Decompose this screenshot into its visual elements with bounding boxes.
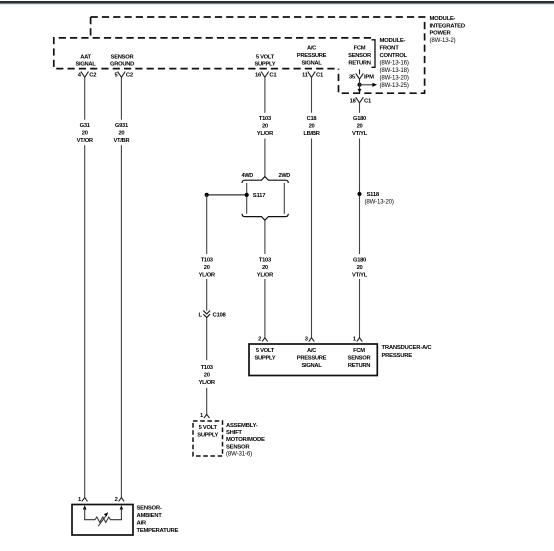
- option brace top 4WD/2WD: [242, 177, 288, 183]
- wire 4WD branch: [246, 183, 248, 214]
- node: FCM SENSOR RETURN header: [348, 45, 372, 66]
- svg-text:AAT: AAT: [80, 54, 91, 60]
- svg-text:AIR: AIR: [137, 521, 147, 527]
- svg-text:5 VOLT: 5 VOLT: [256, 54, 275, 60]
- svg-text:YL/OR: YL/OR: [257, 131, 274, 137]
- svg-text:A/C: A/C: [307, 348, 317, 354]
- transducer box pins: pin 2: [258, 336, 268, 342]
- svg-text:VT/YL: VT/YL: [352, 272, 368, 278]
- svg-text:(8W-31-6): (8W-31-6): [226, 451, 252, 458]
- svg-text:C2: C2: [126, 73, 134, 79]
- node: SENSOR GROUND header: [110, 54, 134, 67]
- svg-text:TRANSDUCER-A/C: TRANSDUCER-A/C: [382, 345, 433, 351]
- svg-text:20: 20: [309, 124, 315, 130]
- svg-text:INTEGRATED: INTEGRATED: [430, 23, 465, 29]
- svg-text:PRESSURE: PRESSURE: [382, 353, 413, 359]
- svg-text:YL/OR: YL/OR: [199, 272, 216, 278]
- svg-text:SENSOR: SENSOR: [111, 54, 135, 60]
- svg-text:20: 20: [357, 265, 363, 271]
- svg-text:A/C: A/C: [307, 45, 317, 51]
- svg-text:(8W-13-16): (8W-13-16): [380, 60, 409, 67]
- svg-text:ASSEMBLY-: ASSEMBLY-: [226, 423, 258, 429]
- svg-text:SUPPLY: SUPPLY: [197, 432, 218, 438]
- label G180 20 VT/YL lower: [352, 257, 368, 278]
- splice S117: [205, 193, 267, 199]
- label TRANSDUCER-A/C PRESSURE: [382, 345, 433, 359]
- svg-text:T103: T103: [259, 257, 272, 263]
- svg-text:T103: T103: [201, 257, 214, 263]
- svg-text:IPM: IPM: [364, 74, 374, 80]
- svg-text:20: 20: [357, 124, 363, 130]
- label T103 20 YL/OR upper: [257, 116, 274, 137]
- wire W4 A/C pressure signal: [311, 77, 313, 338]
- module U1: MODULE-INTEGRATED POWER dashed outline: [91, 17, 425, 93]
- thermistor symbol: [83, 505, 123, 526]
- pin 1 AAT sensor: [78, 497, 88, 503]
- pin 11 C1: [302, 72, 324, 79]
- inline connector C108: [199, 311, 227, 319]
- svg-text:MOTOR/MODE: MOTOR/MODE: [226, 437, 265, 443]
- svg-text:RETURN: RETURN: [348, 61, 370, 67]
- label T103 20 YL/OR branch lower: [199, 365, 216, 386]
- svg-text:VT/YL: VT/YL: [352, 131, 368, 137]
- header bar: [0, 1, 554, 5]
- pin 16 C1: [255, 72, 277, 79]
- svg-text:20: 20: [118, 130, 124, 136]
- label SENSOR-AMBIENT AIR TEMPERATURE: [137, 506, 179, 534]
- svg-text:SUPPLY: SUPPLY: [254, 62, 275, 68]
- svg-text:S117: S117: [253, 193, 266, 199]
- svg-text:LB/BR: LB/BR: [303, 131, 320, 137]
- svg-text:G31: G31: [80, 123, 91, 129]
- svg-text:20: 20: [204, 373, 210, 379]
- svg-text:YL/OR: YL/OR: [257, 272, 274, 278]
- svg-text:(8W-13-20): (8W-13-20): [380, 75, 409, 82]
- svg-text:C1: C1: [269, 73, 277, 79]
- svg-text:SIGNAL: SIGNAL: [301, 61, 322, 67]
- label C18 20 LB/BR: [303, 116, 320, 137]
- component: SENSOR-AMBIENT AIR TEMPERATURE box: [72, 505, 133, 536]
- label G31 20 VT/OR: [77, 123, 94, 144]
- svg-text:PRESSURE: PRESSURE: [297, 53, 327, 59]
- splice S118: [357, 192, 393, 206]
- component: TRANSDUCER-A/C PRESSURE box: [249, 344, 377, 376]
- wire W3 5 volt supply: [264, 77, 266, 338]
- svg-text:VT/BR: VT/BR: [113, 138, 130, 144]
- svg-text:(8W-13-2): (8W-13-2): [430, 37, 456, 44]
- label: MODULE-INTEGRATED POWER (8W-13-2): [430, 16, 465, 44]
- svg-text:(8W-13-18): (8W-13-18): [380, 67, 409, 74]
- svg-text:GROUND: GROUND: [110, 62, 134, 68]
- svg-text:FCM: FCM: [354, 45, 366, 51]
- wire W3B shift-sensor feed: [206, 195, 208, 414]
- svg-text:SENSOR-: SENSOR-: [137, 506, 162, 512]
- svg-text:VT/OR: VT/OR: [77, 138, 94, 144]
- svg-text:C1: C1: [316, 73, 324, 79]
- svg-text:S118: S118: [367, 192, 380, 198]
- svg-text:CONTROL: CONTROL: [380, 53, 408, 59]
- svg-text:C1: C1: [364, 98, 372, 104]
- pin 2 AAT sensor: [115, 497, 125, 503]
- svg-text:POWER: POWER: [430, 31, 452, 37]
- svg-text:FCM: FCM: [353, 348, 365, 354]
- pin 1: [353, 336, 363, 342]
- svg-text:C18: C18: [307, 116, 318, 122]
- svg-text:SHIFT: SHIFT: [226, 430, 242, 436]
- svg-text:MODULE-: MODULE-: [380, 38, 406, 44]
- svg-text:SENSOR: SENSOR: [348, 355, 372, 361]
- svg-text:MODULE-: MODULE-: [430, 16, 456, 22]
- node S-IPM junction with arrows: [358, 79, 378, 93]
- component: shift motor/mode sensor dashed box: [193, 421, 223, 456]
- svg-text:SIGNAL: SIGNAL: [301, 363, 322, 369]
- pin 4 C2: [78, 72, 97, 79]
- svg-text:2WD: 2WD: [279, 173, 291, 179]
- svg-text:20: 20: [82, 130, 88, 136]
- label T103 20 YL/OR lower: [257, 257, 274, 278]
- svg-text:T103: T103: [259, 116, 272, 122]
- pin 1 shift sensor: [200, 413, 210, 419]
- module U2: FCM connector section dashed box: [54, 38, 371, 69]
- pin 18 C1: [350, 97, 372, 104]
- svg-text:AMBIENT: AMBIENT: [137, 513, 163, 519]
- svg-text:RETURN: RETURN: [348, 363, 370, 369]
- wire W5 FCM sensor return: [359, 103, 361, 338]
- svg-text:PRESSURE: PRESSURE: [297, 355, 327, 361]
- svg-text:YL/OR: YL/OR: [199, 380, 216, 386]
- svg-text:(8W-13-20): (8W-13-20): [365, 199, 394, 206]
- svg-text:FRONT: FRONT: [380, 46, 400, 52]
- svg-text:SIGNAL: SIGNAL: [75, 62, 96, 68]
- svg-text:5 VOLT: 5 VOLT: [199, 425, 218, 431]
- wire W2 sensor ground: [120, 77, 122, 497]
- label T103 20 YL/OR branch upper: [199, 257, 216, 278]
- node: AAT SIGNAL header: [75, 54, 96, 67]
- svg-text:SUPPLY: SUPPLY: [254, 355, 275, 361]
- node: 5 VOLT SUPPLY header: [254, 54, 275, 67]
- svg-text:2: 2: [258, 336, 261, 342]
- pin 5 C2: [114, 72, 133, 79]
- svg-text:G180: G180: [353, 116, 366, 122]
- wire W1 AAT signal: [84, 77, 86, 497]
- svg-text:TEMPERATURE: TEMPERATURE: [137, 528, 179, 534]
- label G180 20 VT/YL upper: [352, 116, 368, 137]
- wire 2WD branch: [283, 183, 285, 214]
- svg-text:SENSOR: SENSOR: [348, 53, 372, 59]
- pin 35 IPM: [349, 69, 374, 80]
- svg-text:2: 2: [115, 497, 118, 503]
- bracket for MODULE-FRONT CONTROL label: [372, 40, 376, 68]
- svg-text:G931: G931: [115, 123, 129, 129]
- svg-text:T103: T103: [201, 365, 214, 371]
- node: A/C PRESSURE SIGNAL header: [297, 45, 327, 66]
- svg-text:G180: G180: [353, 257, 366, 263]
- option brace bottom: [242, 214, 288, 220]
- svg-text:C108: C108: [213, 312, 227, 318]
- svg-text:C2: C2: [89, 73, 97, 79]
- svg-text:(8W-13-25): (8W-13-25): [380, 82, 409, 89]
- label G931 20 VT/BR: [113, 123, 130, 144]
- svg-text:20: 20: [204, 265, 210, 271]
- label: MODULE-FRONT CONTROL refs: [380, 38, 409, 89]
- svg-text:5 VOLT: 5 VOLT: [256, 348, 275, 354]
- svg-text:20: 20: [262, 124, 268, 130]
- label ASSEMBLY-SHIFT MOTOR/MODE SENSOR: [226, 423, 265, 458]
- pin 3: [305, 336, 315, 342]
- svg-text:4WD: 4WD: [242, 173, 254, 179]
- svg-text:20: 20: [262, 265, 268, 271]
